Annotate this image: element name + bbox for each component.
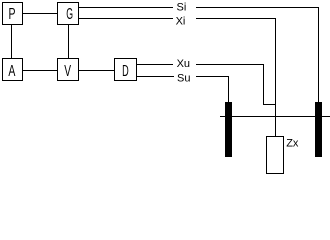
wire Xu to corner [196,64,264,66]
svg-text:Su: Su [177,72,190,84]
block V [58,59,79,81]
horizontal line through electrodes [220,116,330,118]
svg-text:Xu: Xu [177,58,190,70]
wire G to Xi label [79,18,173,20]
right electrode bar [315,102,322,157]
wire Su vertical drop to left electrode [228,76,230,102]
wire Si to right corner [196,7,319,9]
block P [3,3,23,25]
wire D to Su label [137,76,174,78]
wire Xu jog to Xi vertical [264,104,276,106]
wire Xi to corner [196,18,276,20]
wire Su to corner [196,76,229,78]
wire Si vertical drop [318,7,320,102]
wire Xu vertical drop [263,64,265,105]
svg-text:Zx: Zx [286,138,299,150]
block A [3,59,23,81]
left electrode bar [225,102,232,157]
svg-text:Si: Si [177,2,187,14]
wire G to Si label [79,7,173,9]
impedance Zx box [267,137,284,174]
svg-text:Xi: Xi [176,16,186,28]
wire P to A [11,25,13,58]
wire D to Xu label [137,64,173,66]
wire V to D [79,70,114,72]
svg-text:A: A [8,63,15,80]
wire A to V [23,70,57,72]
svg-text:D: D [122,63,129,80]
block D [115,59,137,81]
block G [58,3,79,25]
wire P to G [23,13,57,15]
svg-text:V: V [64,63,71,80]
svg-text:G: G [66,6,73,23]
svg-text:P: P [9,6,16,23]
wire Xi vertical drop to Zx [275,18,277,137]
wire G to V [68,25,70,58]
